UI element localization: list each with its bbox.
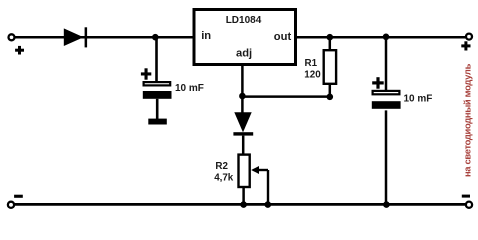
svg-text:R2: R2: [215, 161, 228, 172]
wire C2 bottom lead: [385, 110, 388, 204]
terminal input +: [9, 34, 15, 40]
node R2/rail junction: [240, 201, 247, 208]
op-amp U1 LD1084 regulator box: [194, 10, 296, 65]
capacitor C2 polarity +: [372, 77, 384, 89]
node adj junction: [239, 93, 246, 100]
capacitor C2: [372, 91, 401, 109]
svg-text:120: 120: [304, 69, 321, 80]
wire R2 bottom lead: [242, 187, 245, 204]
svg-text:4,7k: 4,7k: [214, 173, 234, 184]
node input/C1 junction: [152, 34, 159, 41]
diode D1: [64, 27, 87, 47]
svg-text:10 mF: 10 mF: [175, 83, 204, 94]
wire C1 bottom lead: [156, 99, 159, 119]
label + (output): [461, 41, 470, 50]
node wiper/rail junction: [265, 201, 272, 208]
wire output rail: [297, 36, 466, 39]
terminal output -: [466, 202, 472, 208]
svg-text:in: in: [201, 30, 211, 42]
wire R1 top lead: [329, 37, 332, 51]
wire R1 bottom lead: [329, 85, 332, 97]
node C2/rail junction: [383, 201, 390, 208]
wire adj drop: [241, 64, 244, 113]
ground bar (C1): [148, 119, 167, 125]
svg-text:LD1084: LD1084: [226, 15, 262, 26]
svg-text:R1: R1: [305, 58, 318, 69]
svg-text:out: out: [274, 31, 292, 43]
capacitor C1 polarity +: [141, 68, 151, 79]
label - (output): [462, 195, 470, 198]
wire C1 top lead: [155, 37, 158, 82]
node out/C2 junction: [383, 34, 390, 41]
label - (input): [14, 195, 23, 198]
wiper arrow (R2): [251, 166, 268, 204]
node out/R1 junction: [327, 34, 334, 41]
resistor R1: [324, 50, 336, 84]
capacitor C1: [143, 82, 172, 99]
wire adj to R1: [242, 95, 329, 98]
terminal output +: [466, 34, 472, 40]
terminal input -: [8, 202, 14, 208]
svg-text:на светодиодный модуль: на светодиодный модуль: [461, 63, 472, 177]
wire top input rail: [14, 36, 193, 39]
node R1/adj junction: [327, 94, 334, 101]
svg-text:adj: adj: [236, 47, 252, 59]
resistor R2 potentiometer body: [239, 155, 250, 187]
diode D2: [233, 112, 253, 135]
wire bottom return rail: [15, 203, 466, 206]
wire C2 top lead: [385, 37, 388, 92]
label + (input): [15, 46, 24, 55]
svg-text:10 mF: 10 mF: [404, 94, 433, 105]
wire D2 to R2: [242, 136, 245, 155]
